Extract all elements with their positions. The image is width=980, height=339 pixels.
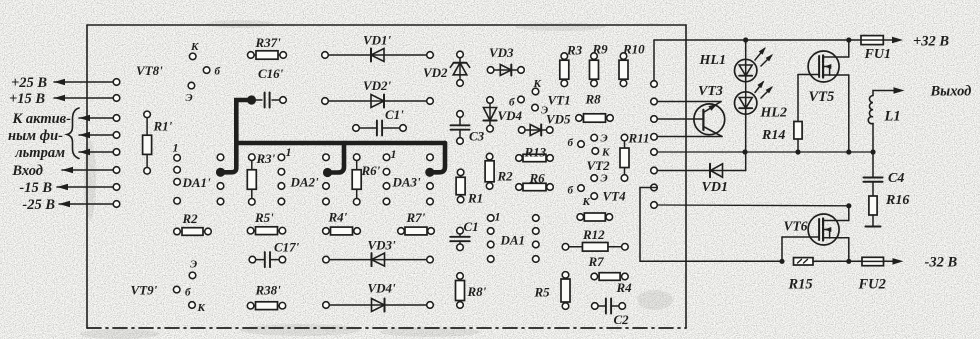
svg-text:R7: R7 — [588, 254, 605, 269]
pin-1 mark (DA2') — [391, 147, 397, 161]
svg-text:К: К — [582, 196, 591, 208]
svg-text:1: 1 — [173, 141, 179, 155]
capacitor C3 (vertical) — [451, 111, 470, 145]
svg-text:R5: R5 — [534, 285, 551, 300]
label R11 — [628, 131, 650, 146]
IC DA1' left pad column (pin row with bold pad) — [216, 154, 225, 205]
connector pin wire + arrow 'Вход' — [62, 167, 120, 174]
junction LED chain on +32V — [743, 37, 748, 42]
label VT3 — [698, 84, 723, 99]
svg-text:DA3': DA3' — [392, 175, 422, 190]
svg-text:R4: R4 — [616, 280, 633, 295]
resistor R16 (vertical, schematic) — [869, 196, 877, 215]
svg-text:б: б — [185, 287, 191, 299]
label R7 — [588, 254, 605, 269]
svg-text:б: б — [509, 97, 515, 109]
wire from pad 4 to VT3 emitter — [657, 136, 722, 138]
svg-text:R2: R2 — [182, 211, 199, 226]
diode VD4 (vertical) — [483, 97, 496, 132]
svg-text:VT5: VT5 — [809, 89, 835, 105]
resistor R4' — [323, 227, 361, 235]
label VT6 — [784, 219, 808, 234]
wire VT5 gate down to R14 — [797, 75, 799, 122]
label R12 — [582, 227, 605, 242]
resistor R12 — [577, 213, 613, 221]
svg-text:VT4: VT4 — [603, 189, 627, 204]
svg-text:R16: R16 — [885, 193, 909, 208]
label Выход — [930, 84, 972, 100]
connector pin wire + arrow '-15 В' — [57, 184, 120, 191]
ground below R16 — [866, 215, 881, 227]
board outline — [87, 25, 686, 328]
resistor R6 — [516, 183, 554, 190]
svg-text:R5': R5' — [254, 210, 274, 225]
label VT4 — [603, 189, 627, 204]
resistor R14 (vertical, schematic) — [794, 122, 802, 153]
label C1' — [385, 107, 404, 122]
svg-text:VD2: VD2 — [423, 65, 448, 80]
svg-text:б: б — [568, 185, 574, 197]
transistor VT1 pads — [518, 88, 539, 111]
svg-text:DA2': DA2' — [290, 175, 320, 190]
resistor R4 — [591, 273, 628, 281]
label К актив- — [11, 111, 71, 127]
resistor R38' — [247, 302, 285, 310]
svg-text:VT1: VT1 — [548, 93, 571, 108]
svg-text:HL2: HL2 — [760, 106, 787, 121]
svg-text:К актив-: К актив- — [11, 111, 71, 127]
pin label Э (VT2) — [601, 133, 608, 145]
connector pin wire + arrow 'К актив-' — [79, 115, 120, 122]
svg-text:К: К — [533, 78, 542, 90]
pin label б (VT4) — [568, 185, 574, 197]
resistor R7' — [398, 227, 435, 235]
pin label Э (VT9') — [190, 259, 197, 271]
svg-text:R14: R14 — [761, 128, 785, 143]
svg-text:VD4: VD4 — [498, 108, 523, 123]
resistor R9 (vertical) — [590, 53, 599, 87]
svg-text:1: 1 — [286, 145, 292, 159]
label R1 — [467, 191, 483, 206]
label VD5 — [546, 112, 571, 127]
label VD4' — [368, 281, 397, 296]
IC pad column (left of DA1') — [174, 155, 181, 205]
pin-1 mark (DA1') — [286, 145, 292, 159]
IC DA3' left pad column with bold pad — [425, 154, 434, 205]
junction L1/C4 node — [870, 149, 875, 154]
resistor R37' — [248, 51, 287, 59]
label R7' — [406, 210, 426, 225]
svg-text:К: К — [601, 147, 610, 159]
connector pin wire + arrow 'ным фи-' — [79, 132, 120, 139]
svg-text:VT3: VT3 — [698, 84, 723, 99]
svg-text:VD3: VD3 — [489, 45, 514, 60]
label R1' — [153, 119, 173, 134]
label VD2 — [423, 65, 448, 80]
LED HL2 emission arrows — [755, 81, 773, 99]
transistor VT9' pads — [173, 272, 195, 308]
pin-1 mark (left column) — [173, 141, 179, 155]
pin label К (VT9') — [197, 302, 206, 314]
label R10 — [622, 42, 645, 57]
svg-text:C1': C1' — [385, 107, 404, 122]
resistor R8' (vertical) — [456, 273, 465, 309]
svg-text:R6: R6 — [529, 171, 546, 186]
label -15 В — [19, 180, 52, 196]
svg-text:R1': R1' — [153, 119, 173, 134]
label Вход — [11, 163, 43, 179]
label R6' — [361, 163, 381, 178]
diode VD2 (vertical, with winged bar) — [450, 51, 469, 86]
resistor R6' (vertical) — [352, 154, 361, 205]
label R5' — [254, 210, 274, 225]
svg-text:R38': R38' — [255, 283, 282, 298]
resistor R15 (with slashes) — [794, 258, 814, 265]
connector pin wire + arrow '+15 В' — [54, 95, 120, 102]
LED chain wire — [745, 40, 747, 171]
label DA3' — [392, 175, 422, 190]
label R8' — [467, 284, 487, 299]
svg-text:R2: R2 — [497, 169, 514, 184]
label R38' — [255, 283, 282, 298]
resistor R2 (vertical, mid-board) — [485, 153, 494, 189]
svg-text:VT8': VT8' — [136, 63, 163, 78]
diode VD1' — [322, 49, 434, 62]
label DA2' — [290, 175, 320, 190]
capacitor C17' — [249, 252, 286, 267]
svg-text:Вход: Вход — [11, 163, 43, 179]
label R37' — [255, 35, 282, 50]
svg-text:DA1: DA1 — [500, 233, 526, 248]
svg-text:+25 В: +25 В — [11, 75, 47, 91]
junction VT6 drain on pad8 wire — [846, 203, 851, 208]
label льтрам — [14, 145, 65, 161]
label VT5 — [809, 89, 835, 105]
label C2 — [614, 312, 630, 327]
svg-text:льтрам: льтрам — [14, 145, 65, 161]
fuse FU1 — [861, 36, 883, 45]
resistor R1 (vertical) — [456, 169, 465, 203]
svg-text:C17': C17' — [274, 240, 300, 255]
LED HL2 — [735, 92, 757, 114]
label +25 В — [11, 75, 47, 91]
svg-text:+15 В: +15 В — [9, 91, 45, 107]
transistor VT4 pads — [578, 175, 598, 200]
label -25 В — [22, 197, 55, 213]
pin label К (VT1) — [533, 78, 542, 90]
capacitor C16' with bold pad — [247, 93, 286, 108]
wire VT6 source to rail — [848, 238, 850, 262]
wire from pad 3 to VT3 base — [657, 118, 703, 120]
resistor R3 (vertical) — [560, 53, 569, 87]
resistor R5' — [247, 227, 285, 235]
LED HL1 emission arrows — [755, 47, 773, 66]
svg-text:К: К — [197, 302, 206, 314]
label DA1 — [500, 233, 526, 248]
label VD2' — [363, 78, 392, 93]
wire VT5 source down to node — [848, 75, 850, 152]
svg-text:L1: L1 — [884, 109, 901, 125]
junction gate/R15 on rail — [779, 259, 784, 264]
resistor R1' — [143, 111, 152, 174]
resistor R5 (vertical) — [561, 272, 570, 310]
svg-text:R1: R1 — [467, 191, 483, 206]
connector pin wire + arrow 'льтрам' — [79, 149, 120, 156]
label R3' — [256, 151, 276, 166]
label R3 — [566, 43, 583, 58]
resistor R13 — [516, 154, 554, 161]
wire from pad 8 to VT6 drain — [657, 204, 849, 207]
resistor R10 (vertical) — [619, 53, 628, 87]
diode VD2' — [322, 95, 434, 108]
svg-text:R4': R4' — [328, 210, 348, 225]
label R15 — [788, 277, 813, 293]
MOSFET VT6 — [782, 214, 849, 245]
connector pin wire + arrow '-25 В' — [59, 201, 120, 208]
label R2 (bottom) — [182, 211, 199, 226]
label R6 — [529, 171, 546, 186]
label FU1 — [864, 47, 891, 62]
diode VD5 — [518, 125, 553, 136]
svg-text:Э: Э — [541, 105, 548, 117]
pin label К (VT8') — [190, 41, 199, 53]
svg-text:R12: R12 — [582, 227, 605, 242]
label DA1' — [182, 175, 212, 190]
label VD1' — [363, 33, 392, 48]
junction LED chain / pad5 wire — [742, 149, 747, 154]
svg-text:б: б — [215, 66, 221, 78]
label C1 — [464, 219, 479, 234]
svg-text:C16': C16' — [258, 66, 284, 81]
pin label б (VT1) — [509, 97, 515, 109]
svg-text:C4: C4 — [888, 171, 904, 186]
label R2 — [497, 169, 514, 184]
junction R14 bottom — [795, 149, 800, 154]
label C4 — [888, 171, 904, 186]
svg-text:-25 В: -25 В — [22, 197, 55, 213]
svg-text:-32 В: -32 В — [925, 255, 958, 271]
pin label б (VT2) — [568, 137, 574, 149]
inductor L1 — [868, 91, 897, 153]
pin label Э (VT8') — [186, 92, 193, 104]
svg-text:DA1': DA1' — [182, 175, 212, 190]
fuse FU2 — [862, 257, 884, 265]
label VT8' — [136, 63, 163, 78]
label R4 — [616, 280, 633, 295]
pin label Э (VT1) — [541, 105, 548, 117]
thick ground bus (C16' to DA1' DA2' DA3') — [221, 100, 446, 173]
label R9 — [592, 42, 609, 57]
pin label Э (VT4) — [601, 173, 608, 185]
wire rail to FU2 and out — [813, 260, 897, 262]
junction VT5 source node — [846, 149, 851, 154]
junction VT5 drain on +32V — [846, 37, 851, 42]
svg-text:R6': R6' — [361, 163, 381, 178]
svg-text:Выход: Выход — [930, 84, 972, 100]
IC DA1' right pad column — [278, 154, 285, 205]
label VD4 — [498, 108, 523, 123]
resistor R2 (bottom left) — [174, 228, 212, 236]
wire VT6 drain — [848, 206, 850, 221]
svg-text:К: К — [190, 41, 199, 53]
svg-text:R8: R8 — [585, 92, 602, 107]
label C16' — [258, 66, 284, 81]
svg-text:R7': R7' — [406, 210, 426, 225]
LED HL1 — [735, 59, 757, 81]
resistor R7 (long leads) — [562, 243, 628, 252]
svg-text:R9: R9 — [592, 42, 609, 57]
svg-text:Э: Э — [190, 259, 197, 271]
label VD3 — [489, 45, 514, 60]
svg-text:R11: R11 — [628, 131, 650, 146]
svg-text:VD1': VD1' — [363, 33, 392, 48]
IC DA1 pad columns (bottom) — [487, 215, 539, 263]
transistor VT8' pads — [188, 53, 210, 89]
wire from pad 2 to VT3 collector — [657, 101, 721, 103]
svg-text:R10: R10 — [622, 42, 645, 57]
capacitor C2 — [592, 299, 626, 314]
svg-text:R3': R3' — [256, 151, 276, 166]
resistor R8 — [576, 114, 614, 122]
pin label К (VT4) — [582, 196, 591, 208]
svg-text:VT9': VT9' — [131, 283, 158, 298]
svg-text:C2: C2 — [614, 312, 630, 327]
svg-text:Э: Э — [601, 133, 608, 145]
svg-text:VD5: VD5 — [546, 112, 571, 127]
IC DA2' left pad column with bold pad — [323, 154, 332, 205]
label +15 В — [9, 91, 45, 107]
svg-text:+32 В: +32 В — [913, 34, 949, 50]
junction source/R15/FU2 on rail — [846, 259, 851, 264]
brace for 'К активным фильтрам' group — [67, 108, 79, 159]
diode VD4' — [323, 299, 434, 312]
label R5 — [534, 285, 551, 300]
svg-text:VD4': VD4' — [368, 281, 397, 296]
svg-text:1: 1 — [495, 210, 501, 224]
svg-text:R8': R8' — [467, 284, 487, 299]
pin label б (VT9') — [185, 287, 191, 299]
svg-text:FU1: FU1 — [864, 47, 891, 62]
transistor VT2 pads — [578, 134, 599, 154]
label C17' — [274, 240, 300, 255]
transistor VT3 — [694, 102, 725, 137]
arrow -32V — [893, 258, 904, 265]
label HL2 — [760, 106, 787, 121]
label L1 — [884, 109, 901, 125]
svg-text:VD1: VD1 — [702, 180, 728, 195]
MOSFET VT5 — [798, 51, 849, 82]
label R4' — [328, 210, 348, 225]
diode VD3 — [487, 65, 524, 76]
label -32 В — [925, 255, 958, 271]
label VT1 — [548, 93, 571, 108]
svg-text:R37': R37' — [255, 35, 282, 50]
svg-text:VT2: VT2 — [587, 158, 611, 173]
svg-text:ным фи-: ным фи- — [8, 128, 63, 144]
connector pin wire + arrow '+25 В' — [54, 79, 120, 86]
label ным фи- — [8, 128, 63, 144]
label VT2 — [587, 158, 611, 173]
wire from pad 5 (to R14/VT5/C4 node) — [657, 151, 873, 153]
svg-text:б: б — [568, 137, 574, 149]
label FU2 — [858, 277, 886, 293]
wire VT6 gate to rail — [781, 237, 783, 261]
svg-text:VD3': VD3' — [368, 238, 397, 253]
label R14 — [761, 128, 785, 143]
svg-text:Э: Э — [186, 92, 193, 104]
svg-text:VD2': VD2' — [363, 78, 392, 93]
label VD3' — [368, 238, 397, 253]
board output pads column — [651, 81, 658, 209]
svg-text:C1: C1 — [464, 219, 479, 234]
svg-text:FU2: FU2 — [858, 277, 886, 293]
wire VT5 drain to +32V — [848, 40, 850, 57]
label VD1 — [702, 180, 728, 195]
svg-text:R15: R15 — [788, 277, 813, 293]
wire from pad 7 to -32V rail — [640, 188, 782, 262]
arrow +32V — [892, 37, 903, 43]
pin label б (VT8') — [215, 66, 221, 78]
capacitor C4 (schematic) — [864, 152, 883, 196]
label +32 В — [913, 34, 949, 50]
wire from pad 6 through VD1 — [657, 170, 746, 172]
IC DA2' right pad column — [383, 154, 390, 205]
label R8 — [585, 92, 602, 107]
svg-text:C3: C3 — [469, 129, 485, 144]
resistor R3' (vertical) — [247, 154, 256, 205]
wire +32V from pad 1 — [654, 40, 897, 81]
label VT9' — [131, 283, 158, 298]
label R13 — [524, 145, 547, 160]
arrow Выход — [894, 87, 905, 94]
label C3 — [469, 129, 485, 144]
svg-text:R3: R3 — [566, 43, 583, 58]
svg-text:-15 В: -15 В — [19, 180, 52, 196]
svg-text:R13: R13 — [524, 145, 547, 160]
label HL1 — [699, 53, 726, 68]
diode VD1 — [710, 164, 723, 177]
svg-text:VT6: VT6 — [784, 219, 808, 234]
capacitor C1' — [353, 121, 407, 136]
pin-1 mark (DA1) — [495, 210, 501, 224]
label R16 — [885, 193, 909, 208]
svg-text:1: 1 — [391, 147, 397, 161]
capacitor C1 (vertical) — [450, 227, 470, 250]
diode VD3' — [323, 253, 434, 266]
svg-text:HL1: HL1 — [699, 53, 726, 68]
pin label К (VT2) — [601, 147, 610, 159]
svg-text:Э: Э — [601, 173, 608, 185]
resistor R11 (vertical) — [620, 134, 629, 181]
